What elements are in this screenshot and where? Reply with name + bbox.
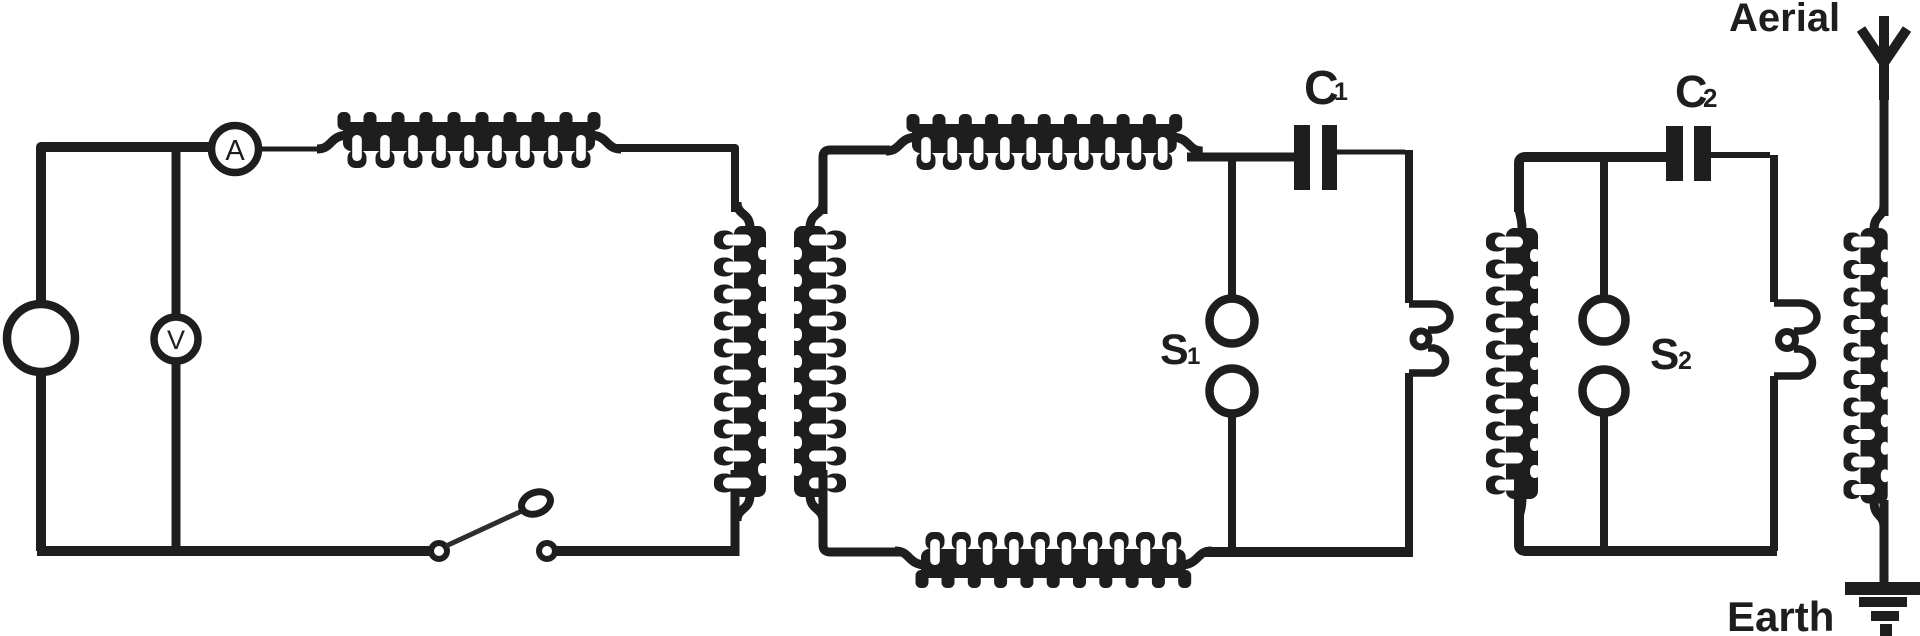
svg-text:2: 2 — [1703, 83, 1717, 113]
svg-text:S: S — [1650, 330, 1679, 379]
svg-text:1: 1 — [1334, 78, 1348, 106]
svg-text:A: A — [225, 135, 245, 167]
svg-text:V: V — [167, 325, 185, 355]
svg-text:Aerial: Aerial — [1729, 0, 1840, 40]
svg-text:1: 1 — [1187, 343, 1200, 370]
svg-text:2: 2 — [1678, 347, 1692, 375]
svg-text:Earth: Earth — [1727, 593, 1834, 636]
svg-text:S: S — [1160, 326, 1189, 374]
